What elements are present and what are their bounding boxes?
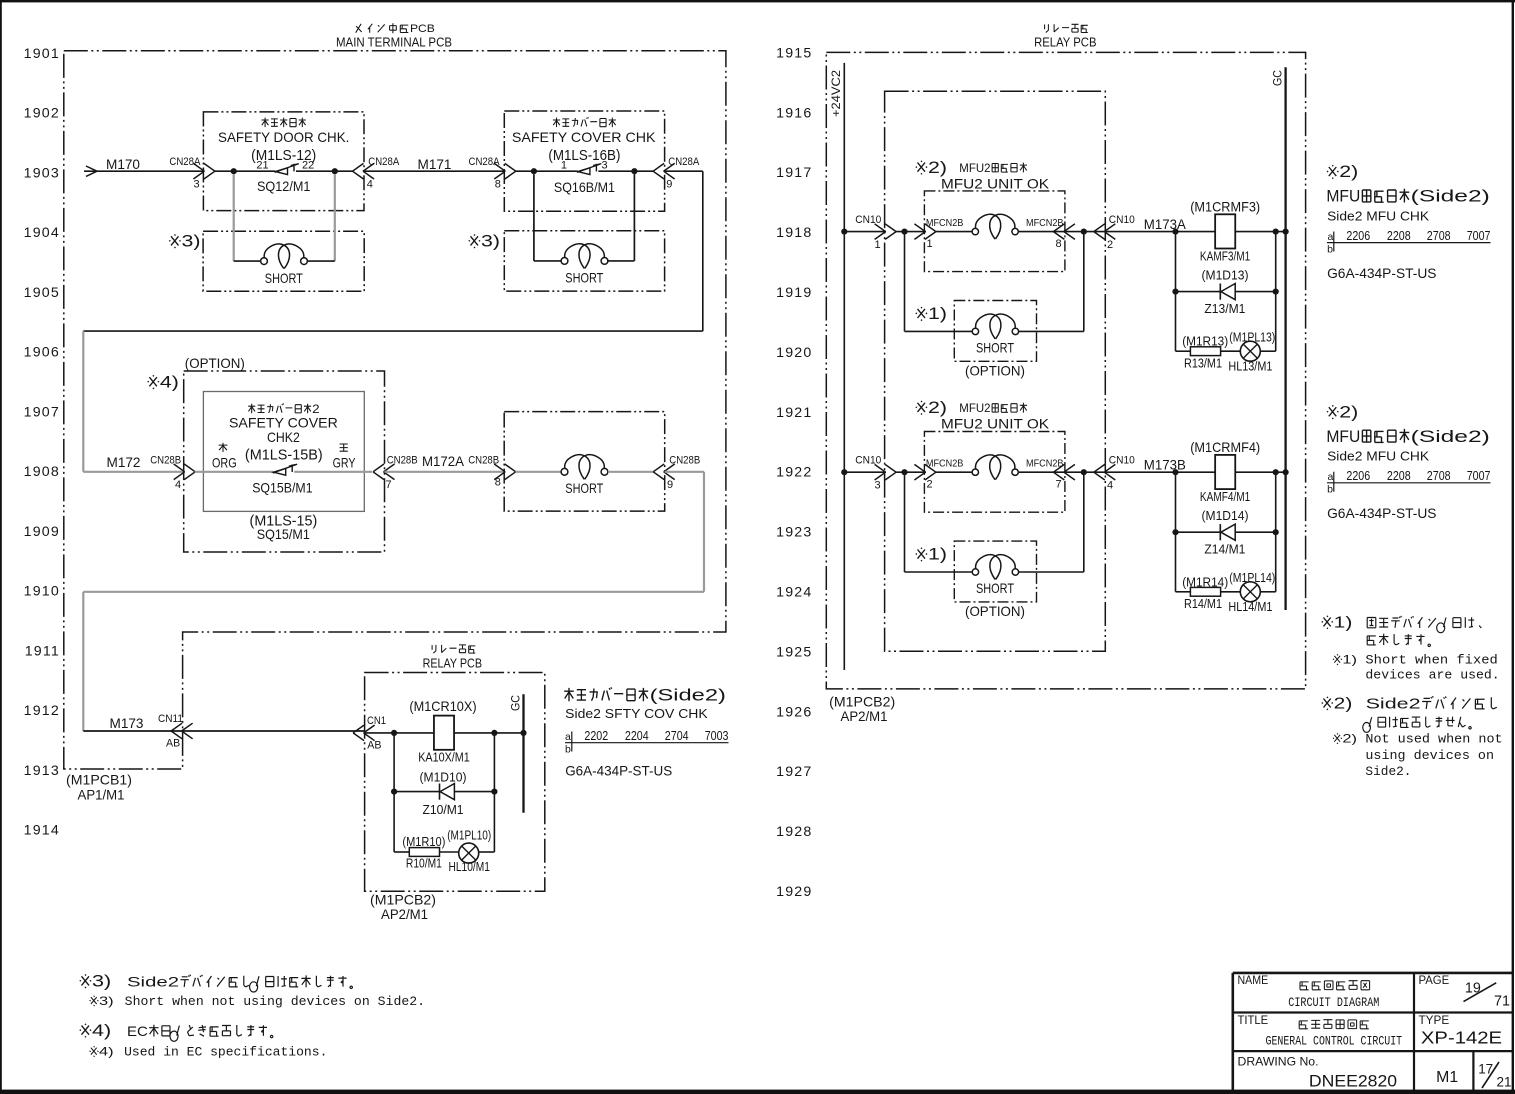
svg-text:1924: 1924	[776, 585, 812, 601]
short plug option box (KAMF3 block)	[954, 301, 1036, 362]
lamp HL13/M1 (M1PL13)	[1228, 330, 1275, 373]
svg-text:MFU2 UNIT OK: MFU2 UNIT OK	[941, 176, 1050, 191]
svg-text:MFU2 UNIT OK: MFU2 UNIT OK	[941, 417, 1050, 432]
label SAFETY DOOR CHK (M1LS-12) SQ12/M1	[218, 118, 349, 195]
svg-text:2): 2)	[1339, 163, 1358, 181]
svg-text:2): 2)	[1339, 403, 1358, 421]
label (M1PCB2) AP2/M1 (left relay PCB)	[370, 892, 436, 921]
junction node left branch (KAMF3)	[1172, 229, 1178, 235]
svg-text:9: 9	[666, 179, 672, 191]
wire to CN10 right	[1065, 471, 1105, 473]
svg-text:1925: 1925	[776, 644, 812, 660]
wire routing from CN28B pin9 down and left to row 1912	[665, 471, 704, 473]
diode Z10/M1 (M1D10)	[420, 771, 467, 818]
short plug jumper SHORT (OPTION)	[965, 555, 1025, 619]
svg-text:1923: 1923	[776, 525, 812, 541]
svg-text:(M1CRMF3): (M1CRMF3)	[1190, 199, 1260, 214]
connector CN1 pin AB (entering relay PCB)	[353, 715, 386, 751]
svg-text:CIRCUIT DIAGRAM: CIRCUIT DIAGRAM	[1288, 995, 1379, 1010]
svg-text:R14/M1: R14/M1	[1184, 597, 1222, 611]
short plug jumper SHORT (OPTION)	[965, 314, 1025, 378]
contact table a/b 2202 2204 2704 7003	[565, 728, 729, 756]
branch verticals (KAMF4 block)	[1175, 472, 1177, 592]
svg-text:(M1D10): (M1D10)	[420, 771, 467, 785]
wire resistor-lamp row	[394, 851, 409, 853]
left margin line numbers 1901-1914	[24, 46, 60, 839]
svg-text:AB: AB	[367, 739, 381, 751]
connector CN10 pin 4 (leaving sub board)	[1094, 455, 1135, 492]
svg-text:AP2/M1: AP2/M1	[381, 907, 428, 922]
svg-text:1902: 1902	[24, 106, 60, 122]
svg-text:2): 2)	[1342, 732, 1357, 746]
svg-text:71: 71	[1494, 994, 1510, 1010]
svg-text:SHORT: SHORT	[565, 271, 603, 286]
connector CN11 pin AB (leaving main terminal PCB)	[158, 713, 193, 750]
wire M170 row 1903	[84, 170, 203, 172]
svg-text:R13/M1: R13/M1	[1184, 356, 1222, 370]
junction node GC (KA10X row)	[520, 730, 526, 736]
svg-text:3: 3	[602, 160, 608, 172]
wire resistor-lamp row	[1176, 591, 1191, 593]
svg-text:b: b	[1327, 243, 1333, 255]
label MFCN2B (right half)	[1026, 218, 1064, 250]
svg-text:3): 3)	[99, 994, 114, 1008]
wire M173 row 1912	[83, 730, 182, 732]
svg-text:a: a	[1328, 471, 1334, 483]
svg-text:4: 4	[1107, 480, 1113, 492]
wire M172 row 1908	[83, 471, 183, 473]
svg-text:4): 4)	[160, 373, 179, 391]
svg-text:1914: 1914	[24, 823, 60, 839]
svg-text:CN10: CN10	[855, 455, 881, 467]
svg-text:Not used when not: Not used when not	[1365, 732, 1502, 747]
label (M1PCB2) AP2/M1 (right relay PCB)	[829, 694, 895, 724]
wire diode row (Z14)	[1176, 531, 1221, 533]
svg-text:1928: 1928	[776, 824, 812, 840]
title block TYPE cell: XP-142E	[1419, 1015, 1503, 1048]
wire from SQ16B contacts down to short plug (right)	[633, 174, 635, 261]
svg-text:2): 2)	[928, 159, 947, 177]
svg-text:devices are used.: devices are used.	[1365, 668, 1499, 683]
svg-text:2206: 2206	[1346, 228, 1370, 243]
note marker 2 (MFU block)	[916, 161, 927, 175]
svg-text:(Side2): (Side2)	[1411, 427, 1490, 446]
svg-text:Z13/M1: Z13/M1	[1204, 302, 1245, 316]
junction nodes diode row	[1172, 529, 1178, 535]
wire +24VC2 to CN10	[844, 231, 886, 233]
svg-text:Side2: Side2	[127, 975, 179, 991]
connector mating symbol MFCN2B	[972, 228, 978, 234]
svg-text:GC: GC	[1271, 70, 1285, 86]
svg-text:21: 21	[256, 160, 268, 172]
svg-text:1903: 1903	[24, 165, 60, 181]
svg-text:KAMF4/M1: KAMF4/M1	[1200, 490, 1250, 504]
short plug jumper SHORT (row 1908)	[561, 455, 608, 496]
junction node SQ16B pin1 side	[531, 168, 537, 174]
svg-text:MAIN TERMINAL PCB: MAIN TERMINAL PCB	[336, 36, 452, 50]
svg-text:1927: 1927	[776, 764, 812, 780]
svg-text:2): 2)	[1334, 696, 1353, 713]
svg-text:1: 1	[874, 239, 880, 251]
function note MFU CHK (Side2) right column	[1326, 403, 1489, 463]
svg-text:(M1LS-16B): (M1LS-16B)	[548, 148, 620, 164]
junction node SQ16B pin3 side	[631, 168, 637, 174]
svg-text:(M1PCB2): (M1PCB2)	[370, 892, 436, 907]
svg-text:SQ16B/M1: SQ16B/M1	[554, 180, 615, 195]
svg-text:MFU2: MFU2	[959, 162, 990, 175]
svg-text:1): 1)	[1334, 614, 1353, 631]
short plug box row 1908	[504, 412, 665, 512]
svg-text:Side2.: Side2.	[1365, 764, 1411, 779]
connector MFCN2B pin 7 (right half)	[1053, 464, 1064, 480]
svg-text:R10/M1: R10/M1	[406, 857, 442, 871]
svg-text:1919: 1919	[776, 285, 812, 301]
connector CN28B pin 9 (leaving short box)	[653, 454, 700, 491]
svg-text:AP1/M1: AP1/M1	[78, 788, 125, 803]
wire resistor-lamp row	[1176, 350, 1191, 352]
junction node SQ12 pin22 side	[332, 168, 338, 174]
block header MFU2 UNIT OK	[941, 162, 1050, 192]
branch wire left vertical (KA10X block)	[393, 733, 395, 852]
connector CN28A pin 3 (entering SQ12 box)	[169, 156, 215, 190]
svg-text:1: 1	[561, 160, 567, 172]
relay coil KAMF3/M1 (M1CKAMF3)	[1190, 199, 1260, 263]
note marker for SQ16B short option	[469, 235, 480, 249]
svg-text:Side2 MFU CHK: Side2 MFU CHK	[1327, 449, 1429, 464]
labels (M1LS-15) SQ15/M1 below inner box	[250, 513, 318, 542]
svg-text:1904: 1904	[24, 225, 60, 241]
board title RELAY PCB (right)	[1034, 24, 1096, 49]
svg-text:1920: 1920	[776, 345, 812, 361]
svg-text:8: 8	[1055, 238, 1061, 250]
svg-text:(OPTION): (OPTION)	[965, 604, 1025, 619]
svg-text:M173: M173	[110, 716, 144, 731]
junction node right branch	[1273, 469, 1279, 475]
svg-text:b: b	[1327, 484, 1333, 496]
short plug option box (KAMF4 block)	[954, 541, 1036, 602]
svg-text:TITLE: TITLE	[1238, 1015, 1269, 1027]
svg-text:(Side2): (Side2)	[650, 687, 726, 705]
wire coil to GC	[1235, 231, 1285, 233]
svg-text:(M1CR10X): (M1CR10X)	[409, 699, 476, 714]
wire +24VC2 to CN10	[844, 471, 886, 473]
title block TITLE cell: GENERAL CONTROL CIRCUIT	[1238, 1015, 1403, 1049]
branch verticals (KAMF3 block)	[1175, 232, 1177, 352]
svg-text:7: 7	[386, 479, 392, 491]
svg-text:Short when not using devices o: Short when not using devices on Side2.	[125, 994, 425, 1009]
svg-text:3): 3)	[481, 233, 500, 251]
relay PCB (left) board outline	[365, 673, 545, 892]
svg-text:3: 3	[874, 480, 880, 492]
svg-text:AB: AB	[166, 738, 180, 750]
svg-text:+24VC2: +24VC2	[829, 70, 843, 117]
title block PAGE cell: 19/71	[1419, 975, 1511, 1010]
svg-text:M173A: M173A	[1144, 217, 1187, 232]
limit switch box SQ15B/M1 SAFETY COVER CHK2 (M1LS-15B)	[203, 392, 364, 512]
svg-text:1): 1)	[1342, 653, 1357, 667]
svg-text:ORG: ORG	[212, 456, 237, 471]
svg-text:NAME: NAME	[1238, 975, 1269, 987]
svg-text:SAFETY DOOR CHK.: SAFETY DOOR CHK.	[218, 129, 349, 145]
svg-text:8: 8	[495, 477, 501, 489]
svg-text:(M1D13): (M1D13)	[1202, 268, 1249, 282]
svg-text:1908: 1908	[24, 464, 60, 480]
wire diode row	[394, 791, 439, 793]
svg-text:7: 7	[1055, 479, 1061, 491]
wire into connector pair	[936, 231, 972, 233]
svg-text:SAFETY COVER: SAFETY COVER	[229, 414, 338, 430]
svg-text:MFCN2B: MFCN2B	[1026, 218, 1064, 229]
wire from SQ16B contacts down to short plug (left)	[533, 174, 535, 261]
svg-text:(M1LS-15B): (M1LS-15B)	[245, 447, 323, 463]
wire out of connector pair	[1018, 231, 1064, 233]
svg-text:GC: GC	[509, 695, 523, 711]
svg-text:G6A-434P-ST-US: G6A-434P-ST-US	[565, 764, 672, 779]
svg-text:(M1PL14): (M1PL14)	[1229, 571, 1275, 585]
svg-text:(M1PL10): (M1PL10)	[447, 829, 491, 843]
junction node left branch (KA10X)	[391, 730, 397, 736]
svg-text:1921: 1921	[776, 405, 812, 421]
svg-text:9: 9	[667, 479, 673, 491]
svg-text:2704: 2704	[665, 728, 689, 743]
resistor R10/M1 (M1R10)	[402, 835, 445, 871]
connector box MFCN2B (MFU2 unit connector)	[924, 432, 1065, 513]
svg-text:GENERAL CONTROL CIRCUIT: GENERAL CONTROL CIRCUIT	[1266, 1034, 1403, 1049]
power bus +24VC2	[843, 63, 845, 670]
svg-text:1911: 1911	[25, 643, 60, 659]
svg-text:CN10: CN10	[1109, 214, 1135, 226]
wire from contact to pin 7	[294, 471, 372, 473]
sub board outline (M1PCB2 inner)	[885, 91, 1106, 651]
wire into connector pair	[936, 471, 972, 473]
contact table a/b 2206 2208 2708 7007	[1327, 468, 1491, 496]
junction node GC bus	[1283, 229, 1289, 235]
svg-text:1915: 1915	[776, 45, 812, 61]
relay coil KA10X/M1 (M1CR10X)	[409, 699, 476, 764]
svg-text:CHK2: CHK2	[267, 429, 300, 445]
junction node short-plug branch left	[901, 229, 907, 235]
svg-text:MFU: MFU	[1326, 427, 1360, 446]
function note MFU CHK (Side2) right column	[1326, 163, 1489, 223]
svg-text:G6A-434P-ST-US: G6A-434P-ST-US	[1327, 266, 1436, 281]
connector MFCN2B pin 2 (left half)	[914, 458, 963, 490]
svg-text:1): 1)	[928, 305, 947, 323]
svg-text:2204: 2204	[625, 728, 649, 743]
wire into short plug	[515, 471, 561, 473]
junction node +24VC2 bus	[841, 229, 847, 235]
wire into contact SQ15B	[195, 471, 274, 473]
svg-text:PAGE: PAGE	[1419, 975, 1450, 987]
block header MFU2 UNIT OK	[941, 402, 1050, 432]
resistor R14/M1 (M1R14)	[1182, 575, 1228, 611]
svg-text:DNEE2820: DNEE2820	[1309, 1072, 1397, 1091]
svg-text:EC: EC	[127, 1024, 148, 1040]
connector CN10 pin 3 (entering sub board)	[855, 455, 896, 492]
GC bus line (left relay PCB)	[522, 694, 524, 813]
limit switch box SQ12/M1 SAFETY DOOR CHK (M1LS-12)	[203, 112, 364, 211]
svg-text:SHORT: SHORT	[976, 581, 1014, 596]
svg-text:2708: 2708	[1427, 468, 1451, 483]
connector MFCN2B pin 1 (left half)	[914, 218, 963, 250]
svg-text:1918: 1918	[776, 225, 812, 241]
note marker 4 for option box	[148, 375, 159, 389]
contact table a/b 2206 2208 2708 7007	[1327, 228, 1491, 256]
junction nodes diode row	[391, 789, 397, 795]
svg-text:2: 2	[1107, 239, 1113, 251]
svg-text:Short when fixed: Short when fixed	[1365, 653, 1497, 668]
svg-text:2208: 2208	[1387, 468, 1411, 483]
wires junctions down to short plug jumper	[904, 232, 906, 332]
junction node short-plug branch left	[901, 469, 907, 475]
svg-text:GRY: GRY	[333, 456, 356, 471]
relay PCB (right) board outline	[826, 52, 1305, 689]
svg-text:CN28A: CN28A	[668, 156, 700, 168]
svg-text:(OPTION): (OPTION)	[185, 356, 245, 371]
svg-text:4): 4)	[99, 1044, 114, 1058]
limit switch box SQ16B/M1 SAFETY COVER CHK (M1LS-16B)	[504, 111, 664, 211]
svg-text:(M1PL13): (M1PL13)	[1229, 330, 1275, 344]
svg-text:a: a	[1328, 231, 1334, 243]
svg-text:MFCN2B: MFCN2B	[926, 458, 964, 469]
notes 1 and 2 right column	[1322, 614, 1500, 682]
svg-text:M172: M172	[107, 455, 141, 470]
connector mating symbol MFCN2B	[972, 469, 978, 475]
svg-text:CN1: CN1	[367, 715, 386, 727]
connector CN28B pin 7 (leaving option box)	[373, 454, 418, 491]
note marker 1 (short when fixed devices)	[916, 307, 927, 321]
wire routing from CN28A pin9 down and left to row 1908	[665, 170, 703, 172]
svg-text:CN10: CN10	[855, 214, 881, 226]
title block NAME cell: CIRCUIT DIAGRAM	[1238, 975, 1380, 1010]
svg-text:1909: 1909	[24, 524, 60, 540]
svg-text:(M1R13): (M1R13)	[1182, 335, 1228, 349]
connector CN28A pin 4 (leaving SQ12 box)	[353, 156, 400, 190]
connector MFCN2B pin 8 (right half)	[1053, 224, 1064, 240]
svg-text:TYPE: TYPE	[1419, 1015, 1450, 1027]
svg-text:19: 19	[1465, 981, 1481, 997]
svg-text:2202: 2202	[584, 728, 608, 743]
wire from contact to pin 4	[296, 170, 353, 172]
wire M172A row 1908	[385, 471, 505, 473]
wire color label orange	[212, 443, 237, 471]
board title RELAY PCB (left)	[423, 645, 482, 670]
svg-text:1905: 1905	[24, 285, 60, 301]
svg-text:using devices on: using devices on	[1365, 748, 1494, 763]
svg-text:CN28B: CN28B	[387, 454, 418, 466]
short plug jumper SHORT (SQ16B)	[561, 244, 608, 286]
svg-text:2708: 2708	[1427, 228, 1451, 243]
svg-text:KA10X/M1: KA10X/M1	[418, 750, 470, 764]
svg-text:4: 4	[367, 179, 373, 191]
svg-text:AP2/M1: AP2/M1	[841, 709, 888, 724]
svg-text:CN11: CN11	[158, 713, 183, 725]
svg-text:1907: 1907	[24, 404, 60, 420]
svg-text:2): 2)	[928, 399, 947, 417]
junction node left branch (KAMF4)	[1172, 469, 1178, 475]
svg-text:2208: 2208	[1387, 228, 1411, 243]
junction node right branch	[1273, 229, 1279, 235]
labels SAFETY COVER CHK2 (M1LS-15B)	[229, 403, 338, 463]
svg-text:DRAWING No.: DRAWING No.	[1238, 1055, 1319, 1069]
branch wire right vertical (KA10X block)	[493, 733, 495, 852]
svg-text:XP-142E: XP-142E	[1421, 1028, 1502, 1048]
svg-text:3: 3	[193, 179, 199, 191]
wire from SQ12 contacts down to short plug (left)	[233, 174, 235, 261]
lamp HL10/M1 (M1PL10)	[447, 829, 491, 874]
wire diode row (Z13)	[1176, 291, 1221, 293]
svg-text:SHORT: SHORT	[265, 271, 303, 286]
wire coil to GC	[1235, 471, 1285, 473]
svg-text:1922: 1922	[776, 465, 812, 481]
wire into contact SQ12	[215, 170, 276, 172]
contact SQ15B/M1 (NC limit switch)	[274, 468, 286, 475]
svg-text:1917: 1917	[776, 165, 812, 181]
svg-text:HL13/M1: HL13/M1	[1228, 359, 1272, 373]
svg-text:7007: 7007	[1467, 468, 1491, 483]
svg-text:1926: 1926	[776, 704, 812, 720]
wire M171 row 1903	[364, 170, 504, 172]
svg-text:SAFETY COVER CHK: SAFETY COVER CHK	[512, 129, 656, 145]
svg-text:(Side2): (Side2)	[1411, 187, 1490, 206]
svg-text:Side2 SFTY COV CHK: Side2 SFTY COV CHK	[565, 706, 708, 721]
svg-text:Used in EC specifications.: Used in EC specifications.	[124, 1044, 327, 1059]
wire CN10 to MFCN2B	[896, 231, 927, 233]
arrow on M170	[86, 166, 97, 176]
svg-text:G6A-434P-ST-US: G6A-434P-ST-US	[1327, 506, 1436, 521]
wire into contact SQ16B	[516, 170, 578, 172]
svg-text:3): 3)	[92, 973, 111, 991]
svg-text:MFCN2B: MFCN2B	[926, 218, 964, 229]
svg-text:(M1R10): (M1R10)	[402, 835, 445, 849]
svg-text:4: 4	[175, 479, 181, 491]
svg-text:7003: 7003	[705, 728, 729, 743]
svg-text:2: 2	[926, 479, 932, 491]
right margin line numbers 1915-1929	[776, 45, 812, 900]
svg-text:a: a	[565, 731, 571, 743]
label MFCN2B (right half)	[1026, 458, 1064, 490]
junction node short-plug branch right	[1081, 229, 1087, 235]
main terminal PCB board outline (MAIN TERMINAL PCB)	[64, 51, 726, 769]
svg-text:1929: 1929	[776, 884, 812, 900]
note marker 2 (MFU block)	[916, 401, 927, 415]
svg-text:M171: M171	[418, 157, 452, 172]
title block sheet 17/21	[1478, 1062, 1511, 1090]
svg-text:(M1R14): (M1R14)	[1182, 575, 1228, 589]
wire from contact to pin 9	[598, 170, 653, 172]
svg-text:SQ12/M1: SQ12/M1	[257, 179, 311, 194]
svg-text:7007: 7007	[1467, 228, 1491, 243]
svg-text:SQ15B/M1: SQ15B/M1	[252, 480, 312, 495]
svg-text:4): 4)	[92, 1022, 111, 1040]
svg-text:1906: 1906	[24, 345, 60, 361]
svg-text:CN28B: CN28B	[669, 454, 700, 466]
wire coil to GC	[454, 732, 523, 734]
contact SQ12/M1 (NC limit switch)	[256, 160, 314, 175]
svg-text:(OPTION): (OPTION)	[965, 364, 1025, 379]
resistor R13/M1 (M1R13)	[1182, 335, 1228, 371]
svg-text:22: 22	[302, 160, 314, 172]
svg-text:2206: 2206	[1346, 468, 1370, 483]
connector CN28A pin 8 (entering SQ16B box)	[469, 156, 516, 190]
svg-text:1916: 1916	[776, 105, 812, 121]
relay coil KAMF4/M1 (M1CKAMF4)	[1190, 440, 1260, 504]
diode Z14/M1 (M1D14)	[1202, 509, 1249, 556]
svg-text:CN28A: CN28A	[169, 156, 201, 168]
svg-text:HL14/M1: HL14/M1	[1228, 600, 1272, 614]
contact SQ16B/M1 (NC limit switch)	[561, 160, 608, 175]
notes 3 and 4 bottom left	[80, 973, 425, 1009]
svg-text:1913: 1913	[24, 763, 60, 779]
